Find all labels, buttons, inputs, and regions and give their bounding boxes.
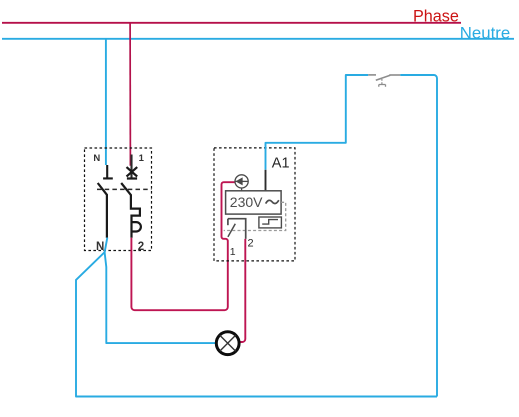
- wire cyan diagonal to left rail: [76, 252, 437, 396]
- wire cyan A1 to pushbutton branch: [266, 75, 369, 170]
- svg-text:2: 2: [138, 241, 144, 253]
- svg-text:N: N: [96, 241, 104, 253]
- wire cyan to lamp: [105, 252, 216, 343]
- timer contact fixed stub pin1: [227, 219, 229, 226]
- svg-text:1: 1: [230, 246, 236, 258]
- timer test button circle with arrow: [235, 175, 248, 191]
- breaker pole 1 contact cross: [127, 167, 138, 178]
- svg-text:230V: 230V: [230, 194, 263, 210]
- pushbutton lever: [376, 75, 390, 80]
- wire timer pin2 to lamp: [239, 239, 245, 342]
- wire breaker N out cyan fork: [105, 238, 108, 253]
- breaker N pole lever and conductor: [98, 183, 107, 238]
- timer delay symbol box: [259, 217, 282, 228]
- svg-text:A1: A1: [272, 155, 290, 171]
- svg-text:N: N: [93, 153, 100, 164]
- pushbutton actuator: [381, 79, 383, 84]
- wire phase drop to breaker pin 1: [129, 23, 131, 166]
- svg-text:2: 2: [248, 237, 254, 249]
- wire phase rail: [2, 22, 461, 24]
- wire pushbutton to right rail down: [400, 75, 437, 397]
- lamp E1 circle: [216, 332, 239, 355]
- svg-text:1: 1: [139, 153, 145, 164]
- breaker box Q1: [85, 148, 152, 251]
- pushbutton stub right: [389, 74, 400, 76]
- timer coil rect 230V: [226, 191, 282, 214]
- timer dashed function link: [224, 202, 286, 230]
- breaker pole 1 lever and trip element: [121, 183, 141, 238]
- breaker N pole terminal: [103, 165, 113, 178]
- timer contact lever: [228, 224, 235, 237]
- pushbutton S1 stub left: [368, 74, 376, 76]
- svg-text:Neutre: Neutre: [460, 24, 510, 43]
- timer delay step waveform: [262, 220, 278, 225]
- wire neutre rail: [2, 38, 514, 40]
- timer box K1: [214, 148, 295, 261]
- wire A1 internal black: [265, 170, 267, 191]
- lamp cross: [220, 335, 236, 351]
- pushbutton actuator tee: [379, 85, 386, 87]
- wire neutre drop to breaker pin N: [105, 39, 107, 165]
- wire breaker 2 out to timer pin 1 and coil: [131, 182, 235, 310]
- breaker mechanical link dashed: [97, 188, 151, 190]
- timer contact bracket to pin2: [228, 219, 246, 239]
- timer coil tilde: [266, 200, 279, 203]
- svg-text:Phase: Phase: [413, 8, 459, 26]
- breaker pole 1 top conductor: [130, 155, 132, 179]
